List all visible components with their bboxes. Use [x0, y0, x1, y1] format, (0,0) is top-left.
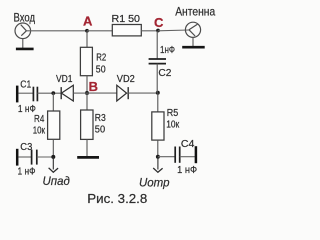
svg-text:VD1: VD1 [56, 74, 73, 85]
wire R4 to bottom junction [52, 139, 54, 157]
wire C3 to bottom-left junction [37, 156, 54, 158]
wire C4 to right terminal [180, 156, 195, 158]
svg-text:50: 50 [96, 65, 106, 76]
wire node B to VD2 [87, 92, 117, 94]
svg-text:C4: C4 [181, 139, 195, 150]
junction node (C4/R5/Uотр) [156, 155, 160, 159]
svg-text:Uпад: Uпад [43, 174, 71, 188]
svg-text:Вход: Вход [14, 10, 36, 24]
wire input to node A [26, 30, 87, 32]
node A [83, 14, 93, 33]
svg-text:VD2: VD2 [117, 74, 135, 85]
resistor R5 [152, 108, 180, 140]
svg-text:Рис. 3.2.8: Рис. 3.2.8 [87, 191, 147, 206]
diode VD2 [117, 74, 135, 101]
svg-text:10к: 10к [166, 119, 180, 130]
resistor R2 [80, 47, 106, 75]
resistor R1 [112, 14, 142, 36]
capacitor C2 [149, 45, 176, 79]
wire terminal to C3 [18, 156, 31, 158]
wire R5 to bottom junction [157, 140, 159, 157]
wire terminal to C1 [18, 92, 33, 94]
wire C1 to junction [37, 92, 61, 94]
terminal bar (left output port, C3 side) [16, 149, 19, 166]
svg-text:1 нФ: 1 нФ [18, 167, 36, 178]
resistor R4 [33, 111, 60, 139]
wire node C to antenna [158, 29, 189, 32]
wire node C down to C2 [156, 31, 158, 59]
node B [85, 79, 98, 95]
ground under R3 [77, 156, 99, 159]
generator G1 (input symbol) [15, 23, 31, 39]
svg-text:B: B [89, 79, 98, 94]
diode VD1 [56, 74, 73, 101]
wire R1 to node C [141, 30, 158, 32]
arrow Uпад [43, 157, 71, 188]
ground under antenna [182, 37, 205, 47]
junction node (C3/R4/Uпад) [51, 155, 55, 159]
junction node (C2/R5) [156, 91, 160, 95]
svg-text:1 нФ: 1 нФ [177, 165, 197, 176]
wire junction down to R4 [52, 93, 54, 111]
svg-text:R2: R2 [96, 52, 106, 63]
svg-text:C: C [154, 15, 164, 30]
ground under input [16, 39, 34, 49]
wire node B down to R3 [86, 93, 88, 110]
svg-text:A: A [83, 14, 93, 29]
svg-text:C3: C3 [20, 142, 32, 153]
svg-text:Uотр: Uотр [139, 175, 170, 189]
capacitor C4 [175, 139, 197, 176]
wire junction down to R5 [157, 93, 159, 112]
node C [154, 15, 164, 33]
svg-text:Антенна: Антенна [175, 5, 215, 19]
capacitor C1 [18, 80, 38, 116]
wire junction to C4 [158, 156, 175, 158]
junction node (C1/R4) [51, 91, 55, 95]
wire R2 to node B [86, 76, 88, 93]
svg-text:C1: C1 [20, 80, 31, 91]
svg-text:R4: R4 [34, 114, 45, 125]
wire R3 to ground [86, 139, 88, 156]
svg-text:C2: C2 [158, 68, 171, 79]
svg-text:1нФ: 1нФ [160, 45, 175, 56]
wire VD2 to junction (C2/R5) [128, 92, 158, 94]
svg-text:10к: 10к [33, 125, 46, 136]
arrow Uотр [139, 157, 170, 190]
wire C2 to junction [156, 64, 158, 93]
capacitor C3 [18, 142, 37, 178]
svg-text:R3: R3 [95, 113, 106, 124]
terminal bar (left input port, C1 side) [16, 86, 19, 103]
wire node A down to R2 [86, 31, 88, 48]
wire node A to R1 [87, 30, 112, 32]
terminal bar (right output port, C4 side) [195, 146, 198, 163]
resistor R3 [81, 110, 107, 139]
wire VD1 to node B [73, 92, 87, 94]
svg-text:R1 50: R1 50 [112, 14, 141, 25]
svg-text:R5: R5 [167, 108, 179, 119]
svg-text:50: 50 [95, 125, 106, 136]
antenna symbol [185, 22, 200, 37]
